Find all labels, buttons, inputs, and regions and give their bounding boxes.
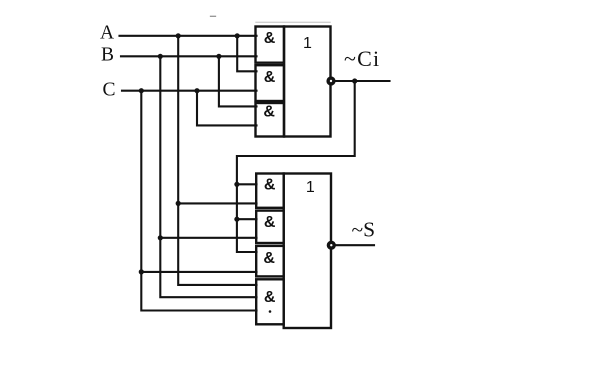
AND gate U2C box	[256, 246, 284, 277]
label ~Ci	[344, 46, 380, 71]
wire A branch to AND2 (vertical x=237)	[237, 36, 256, 72]
svg-text:&: &	[264, 289, 276, 306]
AND gate U1C box	[256, 103, 285, 137]
node C bottom	[139, 269, 144, 274]
wire B horizontal	[121, 55, 257, 57]
label 1 of U1 OR	[303, 35, 312, 52]
node feedback AND1	[234, 182, 239, 187]
node A bottom	[176, 201, 181, 206]
svg-text:&: &	[264, 214, 276, 231]
wire ~Ci feedback vertical from junction	[237, 81, 355, 252]
node A-x237	[235, 33, 240, 38]
AND gate U2A box	[256, 174, 284, 208]
wire feedback to bottom AND1	[237, 183, 257, 185]
label & of U2D	[264, 289, 276, 306]
stray mark in U2D	[269, 310, 272, 313]
node B-x219	[216, 54, 221, 59]
scan ghost line	[256, 21, 330, 23]
wire feedback to bottom AND2	[237, 218, 257, 220]
label & of U1A	[264, 30, 276, 47]
input label A	[100, 23, 114, 44]
wire C horizontal	[122, 90, 257, 92]
svg-text:~Ci: ~Ci	[344, 46, 380, 71]
node ~Ci junction	[352, 78, 357, 83]
wire C branch to AND3 (vertical x=197)	[197, 91, 257, 126]
label & of U1B	[264, 69, 276, 86]
wire C to bottom AND3	[141, 271, 256, 273]
label & of U2C	[263, 250, 275, 267]
svg-text:&: &	[264, 30, 276, 47]
AND gate U2D box	[256, 279, 284, 324]
wire C long branch down (vertical x=141.3)	[141, 91, 256, 311]
output bubble ~S	[328, 242, 334, 248]
label & of U2A	[264, 177, 276, 194]
OR gate U2 box	[284, 174, 331, 329]
svg-text:~S: ~S	[352, 217, 376, 241]
input label B	[101, 44, 114, 65]
svg-text:A: A	[100, 23, 114, 44]
wire A long branch down (vertical x=178)	[178, 36, 256, 285]
AND gate U1A box	[256, 27, 285, 63]
label & of U1C	[263, 104, 275, 121]
svg-text:&: &	[264, 177, 276, 194]
svg-text:1: 1	[303, 35, 312, 52]
wire ~Ci output	[335, 80, 390, 82]
input label C	[102, 80, 115, 101]
AND gate U1B box	[256, 65, 285, 101]
node C-x141	[139, 88, 144, 93]
node B bottom	[158, 235, 163, 240]
OR gate U1 box	[284, 27, 331, 137]
node feedback AND2	[234, 217, 239, 222]
label ~S	[352, 217, 376, 241]
label 1 of U2 OR	[306, 179, 315, 196]
svg-text:&: &	[264, 69, 276, 86]
svg-text:&: &	[263, 104, 275, 121]
svg-text:C: C	[102, 80, 115, 101]
svg-text:1: 1	[306, 179, 315, 196]
wire B branch to AND3 (vertical x=219)	[219, 56, 257, 106]
svg-text:&: &	[263, 250, 275, 267]
output bubble ~Ci	[328, 78, 334, 84]
AND gate U2B box	[256, 211, 284, 243]
wire B to bottom AND2	[160, 237, 256, 239]
wire A horizontal	[120, 35, 257, 37]
wire B long branch down (vertical x=160.5)	[160, 56, 256, 297]
node C-x197	[194, 88, 199, 93]
node B-x160	[158, 54, 163, 59]
label & of U2B	[264, 214, 276, 231]
wire A to bottom AND1	[178, 202, 256, 204]
scan speck	[211, 15, 216, 17]
node A-x178	[176, 33, 181, 38]
wire ~S output	[335, 244, 374, 246]
svg-text:B: B	[101, 44, 114, 65]
